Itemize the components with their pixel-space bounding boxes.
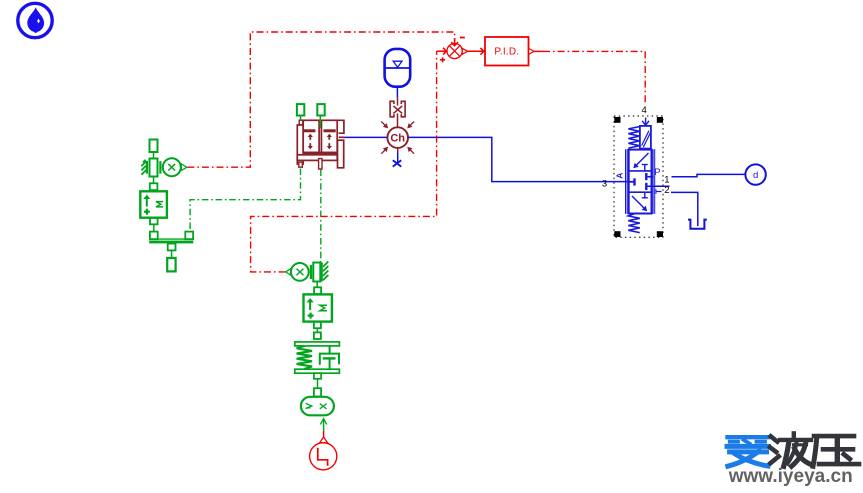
lever/body element B1 [149,232,193,251]
spring-damper K1 bottom port [314,373,321,379]
wire [153,177,155,184]
force summator U5 (arrow, sigma, plus) [304,294,332,321]
valve body [629,150,652,214]
proportional valve V1 [626,118,655,233]
signal wire: sensor X1 to junction (minus input) [187,32,454,167]
pressure source P1 [745,164,765,184]
svg-text:d: d [753,170,758,181]
tank T1 [688,220,707,229]
top box arrow [635,153,649,167]
watermark character ya [813,436,859,466]
accumulator AC1 [385,49,411,87]
plugged port X [393,160,401,166]
side rails [625,149,627,214]
wire: valve port 1 to pressure source [648,176,654,178]
green mech wire: cylinder body to lever [190,169,300,232]
wire: junction to PID [468,48,484,55]
logo: water-drop emblem [18,3,52,37]
pilot input arrow [645,118,647,126]
wire [153,224,155,231]
wire [397,148,399,153]
watermark character ai [727,437,768,466]
hydraulic cylinder A1 green port R [317,104,324,115]
position sensor X1 (piston with wall hatching) [141,158,186,176]
middle box blocked ports [630,181,635,183]
wire [316,282,318,288]
wire: valve port 2 to tank [648,185,670,187]
force summator U2 port [150,183,158,190]
signal arrow into velocity source [320,418,326,431]
bottom box arrow [632,196,646,210]
force summator U2 bottom port [150,218,158,225]
force summator U2 (arrow, sigma, plus) [140,191,167,217]
wire [317,379,319,388]
hydraulic chamber Ch1 [381,122,414,154]
wire [171,250,173,258]
signal wire: PID to valve pilot port 4 [534,50,543,52]
wire [319,116,321,128]
svg-text:T: T [654,188,664,194]
svg-text:3: 3 [602,179,607,190]
signal source S1 (piecewise signal) [310,437,337,470]
spring-damper K1 top port [314,332,321,339]
signal wire: sensor X2 to junction (plus input) [251,51,437,272]
hydraulic cylinder A1 body [297,120,344,169]
signal wire from source [323,431,325,437]
wire [316,328,318,332]
bottom spring [628,214,640,233]
green mech wire: cylinder rod to sensor X2 [320,170,322,262]
mass element M1 top port [150,140,158,153]
spring-damper K1 [295,342,340,373]
body mass element B2 [167,258,175,271]
top spring [628,127,639,149]
wire [300,116,302,121]
wire: cylinder to chamber [344,136,387,138]
port label A [614,173,624,179]
wire [153,152,155,159]
solenoid box [640,126,651,149]
svg-text:Ch: Ch [390,133,405,145]
orifice R1 [390,98,405,128]
summing junction U3 [437,38,468,63]
force summator U5 bottom port [314,322,321,329]
svg-text:4: 4 [641,105,646,116]
wire: chamber to valve port 3 [408,137,633,181]
force summator U5 top port [314,287,321,294]
wire [396,86,398,98]
watermark character ye [770,433,811,466]
velocity source V2 port [314,388,321,396]
svg-text:www.iyeya.cn: www.iyeya.cn [728,465,853,487]
selection frame around valve [614,116,663,237]
PID controller U4 [485,37,534,66]
svg-text:P: P [654,167,660,178]
svg-text:A: A [614,173,624,179]
position sensor X2 (circle-X with piston and hatching) [286,262,329,282]
svg-text:2: 2 [664,185,669,196]
svg-text:1: 1 [664,174,669,185]
velocity source V2 (stadium with > x) [301,397,334,416]
hydraulic cylinder A1 green port L [297,104,304,115]
port label T [654,188,664,194]
svg-text:P.I.D.: P.I.D. [494,46,519,57]
